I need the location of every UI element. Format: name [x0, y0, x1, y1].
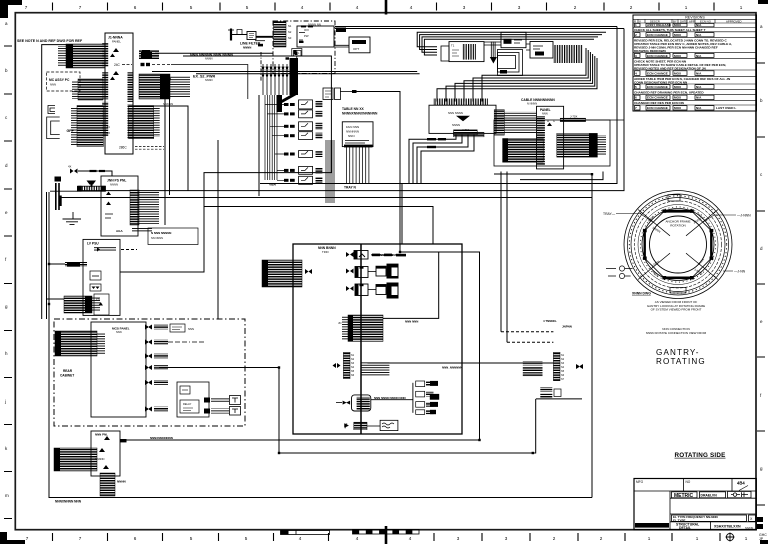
svg-text:OPT: OPT [353, 47, 359, 51]
LED drop wire [296, 56, 298, 59]
wire CB1 riser [383, 252, 439, 318]
connector dense tail [100, 473, 115, 496]
PS2 connector row [94, 247, 116, 252]
svg-text:NNN NNNN: NNN NNNN [448, 111, 463, 115]
svg-text:NNN: NNN [116, 330, 122, 334]
svg-text:j: j [4, 399, 6, 404]
top ruler center bold tick [385, 0, 388, 15]
top junction component [294, 51, 302, 57]
distribution box comb [433, 99, 488, 106]
bottom register mark circled cross [726, 533, 735, 542]
terminal bars TB1 [56, 183, 59, 210]
svg-text:N3: N3 [288, 36, 292, 40]
svg-text:6: 6 [635, 96, 637, 100]
svg-text:GANTRY-: GANTRY- [656, 348, 700, 357]
svg-text:METRIC: METRIC [674, 493, 694, 499]
title block drafting cell [700, 492, 726, 498]
svg-text:24C: 24C [114, 63, 121, 67]
small junction box top [237, 30, 242, 35]
svg-text:J-70X: J-70X [570, 114, 577, 118]
svg-text:4 TNNNN..: 4 TNNNN.. [543, 319, 557, 323]
terminal tree bus [412, 383, 414, 413]
svg-text:N NNN NNNNN: N NNN NNNNN [151, 231, 171, 235]
wire enclosure bottom 2 [60, 197, 592, 199]
corner glyph top-left [0, 0, 22, 18]
connector P3 pin block [78, 79, 103, 100]
spoke arm SE [686, 253, 718, 279]
dash-dot enclosure CONSOLE [273, 21, 335, 74]
dashed enclosure REAR CABINET [54, 319, 245, 426]
terminal symbol A2 [110, 71, 119, 80]
breaker symbol row 3 [145, 354, 152, 359]
title block top row dividers [634, 479, 756, 530]
svg-text:5: 5 [635, 85, 637, 89]
breaker symbol row 5 [145, 380, 152, 385]
terminal row T4 [416, 410, 436, 415]
connector P6 pin block [64, 296, 92, 313]
svg-text:5: 5 [246, 5, 249, 10]
svg-text:NNN PNL: NNN PNL [95, 433, 108, 437]
bottom ruler center bold tick [385, 526, 388, 544]
wire bottom run 1 [120, 439, 480, 441]
svg-text:1: 1 [740, 5, 743, 10]
wire panel drop 2 [506, 172, 508, 343]
breaker symbol row 1 [145, 325, 152, 330]
loop bracket L1 [48, 106, 55, 114]
svg-text:ECN CHANGE: ECN CHANGE [647, 33, 668, 37]
wire console to OPT [334, 45, 349, 47]
svg-text:ASSY RELEASE: ASSY RELEASE [647, 23, 671, 27]
svg-text:N/A: N/A [696, 23, 702, 27]
leader label top-right [703, 214, 751, 223]
wire psu bus 1 [164, 79, 166, 225]
wire P5 route [154, 106, 188, 191]
svg-text:NNNN: NNNN [452, 123, 460, 127]
svg-text:7: 7 [79, 536, 82, 541]
svg-text:6: 6 [134, 536, 137, 541]
row C connector and breakers [346, 283, 399, 299]
svg-text:4: 4 [299, 536, 302, 541]
svg-text:ECN CHANGE: ECN CHANGE [647, 54, 668, 58]
svg-text:1: 1 [635, 23, 637, 27]
svg-text:6: 6 [134, 5, 137, 10]
comb pin beads [262, 67, 288, 77]
svg-text:MOX: MOX [674, 23, 682, 27]
wire mid bus upper [260, 27, 617, 184]
note box [148, 228, 198, 245]
connector bar J-7NN [454, 130, 478, 135]
feeder tap connector [141, 52, 152, 58]
svg-text:MOX: MOX [674, 33, 682, 37]
svg-text:SEE NOTE N AND REF DWG FOR REF: SEE NOTE N AND REF DWG FOR REF [17, 39, 83, 43]
comb bundle into main connector [262, 64, 289, 95]
svg-text:NNNN NN: NNNN NN [308, 23, 321, 27]
wire label run [155, 52, 273, 54]
svg-text:RELAY: RELAY [183, 402, 192, 406]
relay K4 row [284, 132, 322, 140]
corner glyph top-right [758, 0, 768, 4]
svg-text:2: 2 [553, 536, 556, 541]
svg-text:4: 4 [409, 536, 412, 541]
distribution box wide [429, 105, 496, 133]
transformer to command box runs [484, 42, 530, 50]
svg-text:CABLE NNNNNNNNN: CABLE NNNNNNNNN [521, 98, 555, 102]
anchor frame octagon bold west [644, 230, 646, 260]
svg-text:ECN CHANGE: ECN CHANGE [647, 72, 668, 76]
svg-text:NNNN: NNNN [117, 480, 126, 484]
svg-text:4: 4 [301, 5, 304, 10]
revision header labels [634, 19, 742, 23]
thermostat feed wires [211, 398, 229, 403]
connector J2 pin strip [274, 22, 287, 48]
svg-text:CABINET: CABINET [60, 374, 74, 378]
svg-text:ECN CHANGE: ECN CHANGE [647, 96, 668, 100]
svg-text:MOX: MOX [674, 96, 682, 100]
svg-text:1: 1 [648, 536, 651, 541]
terminal star [55, 177, 62, 182]
svg-text:1: 1 [696, 536, 699, 541]
breaker symbol row 6 [145, 407, 152, 412]
svg-text:DATE: DATE [680, 19, 687, 23]
inner panel box [91, 322, 146, 417]
svg-text:3: 3 [463, 5, 466, 10]
command box [501, 32, 526, 47]
svg-text:N/A: N/A [696, 54, 702, 58]
drop cable bundle [491, 42, 495, 58]
svg-text:NN NNNN: NN NNNN [151, 236, 163, 240]
svg-text:NNNN: NNNN [205, 56, 213, 60]
svg-text:OIX: OIX [304, 28, 309, 32]
svg-text:NNNN: NNNN [205, 78, 213, 82]
junction dots [164, 78, 166, 80]
main distribution connector block dark lower [277, 95, 283, 112]
svg-text:LAST USED L: LAST USED L [716, 106, 736, 110]
power supply box PS1 [101, 176, 138, 236]
svg-text:ECN CHANGE: ECN CHANGE [647, 106, 668, 110]
fan cable bundle [347, 147, 369, 183]
wire cabinet relay feed [159, 367, 279, 369]
small aux box [170, 324, 185, 332]
svg-text:PW: PW [304, 34, 309, 38]
connector block wedge tail [279, 93, 297, 103]
connector PS1 J block [130, 190, 139, 225]
striped bus bar [79, 186, 106, 191]
svg-text:XNNN DWG: XNNN DWG [632, 292, 651, 296]
wire right drop nest [494, 174, 592, 498]
wire filter input [232, 34, 247, 36]
svg-text:JNPNN: JNPNN [562, 325, 572, 329]
junction panel box [537, 106, 564, 169]
fan box pin bar [344, 145, 373, 148]
svg-text:NNNXNNNN NNN: NNNXNNNN NNN [55, 500, 82, 504]
svg-text:NNN: NNN [188, 327, 194, 331]
svg-text:A: A [547, 119, 549, 123]
title block EL TYPE cell [672, 515, 747, 521]
svg-text:4B4: 4B4 [737, 481, 745, 486]
svg-text:NN/NN: NN/NN [745, 526, 753, 530]
dashed feeder runs [501, 331, 553, 333]
relay unit box [177, 382, 209, 417]
revision row cells [635, 23, 715, 110]
small connector stack rows [523, 361, 543, 365]
wire drop to cabinet 2 [217, 140, 219, 319]
lower connector bits [540, 387, 552, 391]
wire bottom run 2 [279, 368, 536, 454]
title block projection cell [728, 491, 752, 497]
connector block CB1 [348, 315, 383, 341]
bottom connector row [345, 420, 398, 430]
stripe stub W1 [65, 262, 87, 267]
CR1 output stub [340, 91, 352, 93]
svg-text:FAN NNN: FAN NNN [346, 125, 359, 129]
connector bar J-70X [560, 118, 585, 121]
wire top pair 1 [335, 26, 617, 28]
svg-text:AGA: AGA [116, 229, 124, 233]
bus bar feed wire [50, 190, 78, 192]
wire loop to relay area [120, 56, 331, 272]
svg-text:3: 3 [518, 5, 521, 10]
distribution box triangle [456, 116, 470, 122]
svg-text:NNNN: NNNN [243, 45, 251, 49]
svg-text:NNNXNNNNNNN: NNNXNNNNNNN [150, 436, 173, 440]
anchor frame octagon bold north [663, 210, 693, 213]
sense line [152, 64, 171, 66]
gantry inner texture dashed [640, 207, 715, 282]
svg-text:ECN NO: ECN NO [700, 19, 712, 23]
dashed enclosure MC ASSY PC [47, 72, 81, 91]
wire P6 stub [47, 298, 65, 300]
svg-text:—J-NNN: —J-NNN [737, 214, 751, 218]
sense line tap [141, 63, 145, 66]
wire branch to box top [401, 184, 403, 245]
corner glyph bottom-right [760, 540, 768, 544]
svg-text:JN: JN [338, 321, 341, 325]
pin wires P2 east [170, 76, 190, 97]
svg-text:ECN CHANGE: ECN CHANGE [647, 85, 668, 89]
title block METRIC cell [672, 492, 698, 498]
svg-text:JN: JN [106, 125, 110, 129]
line filter terminal bar [230, 29, 232, 41]
terminal symbol A1 [110, 48, 119, 57]
terminal side block [59, 196, 62, 207]
J1 pin columns left [102, 43, 108, 67]
wire top pair 2 [335, 28, 624, 30]
svg-text:NNN NNNN NNNN NNN: NNN NNNN NNNN NNN [374, 396, 406, 400]
capsule connector CP1 [352, 395, 371, 411]
svg-text:NX: NX [106, 131, 110, 135]
svg-text:TRIO: TRIO [322, 250, 330, 254]
svg-text:N/A: N/A [696, 85, 702, 89]
pin wires P1 to J1 [58, 46, 66, 67]
power supply box PS2 LV [83, 239, 120, 315]
terminal row T3 [416, 402, 438, 408]
feed funnel symbol [87, 181, 97, 185]
svg-text:DETAIL: DETAIL [679, 526, 691, 530]
relay feeder bus [265, 95, 284, 180]
aux input box [441, 46, 449, 61]
svg-text:MCB PANEL: MCB PANEL [112, 327, 130, 331]
title block outer box [634, 479, 756, 530]
loop bracket L2 [47, 117, 60, 139]
left edge zone letters and ticks [4, 46, 12, 519]
svg-text:NNN: NNN [542, 112, 548, 116]
svg-text:XSHXXTBLXXN: XSHXXTBLXXN [714, 525, 741, 529]
line filter FL1 [247, 32, 256, 40]
funnel terminal [490, 57, 497, 64]
connector block CL [503, 139, 544, 163]
title block top row texts [636, 480, 691, 484]
connector block left edge [262, 260, 302, 287]
svg-text:ROTATING SIDE: ROTATING SIDE [675, 452, 726, 459]
wire center cross [357, 92, 480, 441]
inner dashed boundary [260, 52, 262, 81]
junction comb block [553, 45, 583, 63]
svg-text:PANEL: PANEL [112, 39, 121, 43]
wire start blob [120, 439, 127, 442]
anchor frame octagon thin edges [645, 211, 712, 278]
svg-text:MOX: MOX [674, 72, 682, 76]
svg-text:MC ASSY PC: MC ASSY PC [49, 78, 70, 82]
wire filter output thick [256, 36, 273, 38]
ground symbol [63, 212, 82, 224]
relay K7 row [284, 176, 322, 184]
wire slip stub [536, 398, 582, 400]
J1 pin columns right [128, 72, 134, 102]
connector P10 pin block [494, 110, 504, 135]
cable loop bundle feeds [417, 32, 606, 46]
connector symbol 4X [70, 169, 78, 174]
svg-text:MFG: MFG [636, 480, 644, 484]
ring connector blobs [643, 209, 713, 279]
svg-text:REAR: REAR [63, 369, 73, 373]
svg-text:NO: NO [686, 480, 691, 484]
leader symbols left-mid [606, 266, 633, 279]
svg-text:5: 5 [245, 536, 248, 541]
svg-text:NNNN: NNNN [110, 183, 118, 187]
wire J-70X stub [586, 119, 624, 121]
svg-text:N/A: N/A [696, 72, 702, 76]
svg-text:7: 7 [25, 5, 28, 10]
terminal row T2 [416, 391, 439, 399]
svg-text:1: 1 [685, 5, 688, 10]
breaker symbol row 2 [145, 340, 152, 345]
svg-text:OF SYSTEM VIEWED FROM FRONT: OF SYSTEM VIEWED FROM FRONT [651, 308, 702, 312]
relay K1 row [284, 100, 322, 109]
svg-text:MOX: MOX [674, 54, 682, 58]
top ruler digits [25, 5, 743, 10]
svg-text:APP: APP [689, 19, 695, 23]
pin wires CR east [597, 135, 606, 156]
leader label right-mid [723, 270, 746, 274]
wire EX bus 2 [196, 73, 420, 75]
right edge small marks [757, 517, 763, 522]
svg-text:NNN NNN: NNN NNN [405, 320, 418, 324]
svg-text:4-70A: 4-70A [462, 128, 470, 132]
relay enclosure left edge [258, 95, 260, 196]
svg-text:—J-NN: —J-NN [734, 270, 746, 274]
title block left bottom dark strip [635, 523, 669, 528]
svg-text:286C: 286C [119, 146, 127, 150]
svg-text:CHANGED REF DES PER ECN NN: CHANGED REF DES PER ECN NN [634, 101, 685, 105]
svg-text:PANEL: PANEL [540, 108, 551, 112]
svg-text:5: 5 [190, 536, 193, 541]
junction enclosure box J-BOX [293, 244, 462, 434]
svg-text:N NNNN: N NNNN [527, 102, 537, 106]
right edge zone letters and ticks [757, 63, 765, 505]
distribution box lower [91, 431, 120, 476]
edge connector dark [336, 28, 346, 33]
svg-text:4: 4 [356, 536, 359, 541]
svg-text:CONN DESIGNATIONS PER ECN NN: CONN DESIGNATIONS PER ECN NN [634, 81, 688, 85]
gantry ring circle 4 [635, 201, 722, 288]
svg-text:2: 2 [574, 5, 577, 10]
revision table outer box [633, 15, 757, 111]
svg-text:T1: T1 [451, 44, 455, 48]
svg-text:TRAY N: TRAY N [344, 186, 357, 190]
svg-text:2: 2 [630, 5, 633, 10]
spoke arm SW [638, 253, 670, 279]
svg-text:2: 2 [600, 536, 603, 541]
relay K5 row [284, 151, 322, 158]
thermostat boxes [230, 396, 241, 405]
connector P4 pin block tall [77, 106, 103, 147]
svg-text:NNN_NNNNNN: NNN_NNNNNN [442, 366, 462, 370]
wire capsule to terminals [371, 399, 413, 401]
dashed stub wires [135, 147, 164, 150]
aux box OPT [349, 37, 370, 53]
connector P21 pin block [54, 448, 97, 471]
svg-text:2: 2 [635, 33, 637, 37]
wire left drop 2 [46, 192, 48, 319]
connector P5 pin block [129, 106, 154, 139]
ring bottom connector box [670, 288, 686, 294]
spoke arm NW [638, 210, 670, 236]
connector P20 pin block [55, 331, 97, 356]
connector block CR [557, 133, 598, 157]
wire feed dashes [301, 25, 306, 27]
svg-text:7: 7 [635, 106, 637, 110]
caption 2 under circle [646, 327, 707, 335]
anchor frame octagon bold south [663, 276, 693, 279]
wire bottom run 3 [49, 192, 592, 498]
relay K3 row [284, 122, 322, 131]
svg-text:7: 7 [79, 5, 82, 10]
svg-text:V: V [639, 19, 641, 23]
gantry ring circle 2 [628, 194, 729, 295]
wire enclosure bottom 1 [81, 29, 624, 191]
svg-text:NNNN ROTATE CONNECTION VIEW FR: NNNN ROTATE CONNECTION VIEW FROM [646, 331, 707, 335]
facet marks [647, 212, 705, 278]
connector strip CS1 [343, 352, 350, 378]
fan unit box [342, 122, 373, 147]
panel connector strip [537, 116, 545, 166]
svg-text:NNNNXNNNXNNNNNN: NNNNXNNNXNNNNNN [342, 111, 378, 115]
svg-text:EX_S2_PWR: EX_S2_PWR [193, 75, 215, 79]
leader label top-left [603, 212, 652, 222]
wire EX bus 1 [152, 71, 417, 73]
PS1 internal marks [106, 192, 111, 206]
gantry bore circle [650, 216, 707, 273]
top ruler ticks [53, 3, 715, 11]
svg-text:4: 4 [635, 72, 637, 76]
breaker symbol row 4 [145, 365, 152, 370]
bottom scale bar segmented [353, 530, 420, 535]
anchor frame octagon bold east [710, 230, 712, 260]
svg-text:CHANGED REF DRAWING PER ECN, U: CHANGED REF DRAWING PER ECN, UPDATED [634, 90, 704, 94]
internal bus [360, 244, 362, 434]
caption under circle [647, 300, 705, 312]
PS2 aux box 1 [90, 271, 101, 280]
